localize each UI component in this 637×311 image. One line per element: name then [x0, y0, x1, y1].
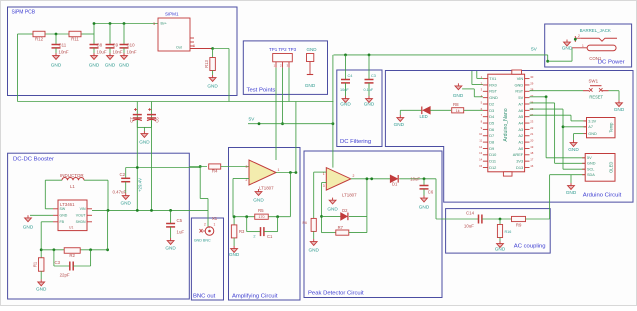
svg-text:DC Power: DC Power: [598, 59, 625, 65]
svg-text:VIN: VIN: [517, 76, 524, 81]
svg-text:GND BNC: GND BNC: [194, 239, 211, 243]
svg-text:R3: R3: [239, 229, 245, 234]
svg-text:R13: R13: [204, 59, 209, 67]
svg-text:22: 22: [530, 126, 534, 130]
svg-text:C7: C7: [129, 117, 134, 123]
svg-text:14: 14: [479, 158, 483, 162]
svg-text:+29.4V: +29.4V: [138, 178, 143, 192]
svg-text:U1: U1: [69, 226, 73, 230]
svg-text:RST: RST: [515, 89, 523, 94]
svg-text:D13: D13: [516, 165, 523, 170]
svg-text:C3: C3: [55, 260, 61, 265]
svg-text:GND: GND: [562, 46, 573, 51]
svg-text:GND: GND: [60, 214, 68, 218]
svg-text:RX0: RX0: [489, 82, 497, 87]
svg-text:C9: C9: [113, 43, 119, 48]
svg-text:11: 11: [479, 139, 482, 143]
svg-text:23: 23: [530, 119, 534, 123]
svg-text:GND: GND: [308, 248, 319, 253]
svg-text:10: 10: [479, 132, 483, 136]
svg-text:10nF: 10nF: [113, 50, 123, 55]
svg-text:X1: X1: [212, 216, 218, 221]
svg-text:A2: A2: [518, 133, 523, 138]
svg-text:GND: GND: [120, 201, 131, 206]
svg-text:R4: R4: [212, 169, 218, 174]
svg-text:GND: GND: [419, 205, 430, 210]
svg-text:Bv+: Bv+: [161, 22, 167, 26]
svg-text:OLED: OLED: [609, 162, 614, 173]
svg-text:10uF: 10uF: [340, 88, 349, 92]
svg-text:C4: C4: [348, 74, 353, 78]
svg-text:GND: GND: [253, 198, 264, 203]
svg-text:D2: D2: [342, 208, 348, 213]
svg-text:SW1: SW1: [589, 78, 599, 83]
svg-text:D3: D3: [489, 108, 494, 113]
svg-text:A7: A7: [518, 101, 523, 106]
svg-text:GND: GND: [105, 63, 116, 68]
svg-text:D10: D10: [489, 152, 497, 157]
svg-text:R1: R1: [33, 261, 38, 267]
svg-text:A6: A6: [518, 108, 523, 113]
svg-text:26: 26: [530, 100, 534, 104]
svg-text:R8: R8: [453, 102, 459, 107]
svg-text:2: 2: [253, 235, 255, 239]
svg-text:R12: R12: [35, 36, 44, 41]
svg-text:20: 20: [530, 139, 534, 143]
svg-text:GND: GND: [23, 225, 34, 230]
svg-text:RST: RST: [489, 89, 497, 94]
svg-text:GND: GND: [588, 132, 597, 136]
svg-text:A7: A7: [588, 125, 593, 129]
svg-text:0.47uF: 0.47uF: [113, 190, 127, 195]
svg-text:GND: GND: [566, 190, 577, 195]
svg-text:5V: 5V: [518, 95, 523, 100]
svg-text:A3: A3: [518, 127, 523, 132]
svg-text:3.3V: 3.3V: [588, 119, 596, 123]
svg-text:0.1uF: 0.1uF: [364, 88, 374, 92]
svg-text:Out: Out: [176, 46, 182, 50]
svg-text:GND: GND: [340, 102, 351, 107]
svg-text:1k: 1k: [456, 109, 460, 113]
svg-text:2: 2: [578, 34, 580, 38]
svg-text:D11: D11: [489, 159, 496, 164]
svg-text:D5: D5: [489, 120, 494, 125]
svg-text:AREF: AREF: [513, 152, 524, 157]
svg-text:TP1 TP2 TP3: TP1 TP2 TP3: [269, 47, 297, 52]
svg-text:C3: C3: [371, 74, 376, 78]
svg-text:AC coupling: AC coupling: [514, 244, 546, 250]
svg-text:LED: LED: [420, 114, 428, 119]
svg-text:DC-DC Booster: DC-DC Booster: [13, 157, 54, 163]
svg-text:C1: C1: [267, 234, 273, 239]
svg-text:GND: GND: [305, 83, 316, 88]
svg-text:GND: GND: [89, 63, 100, 68]
svg-text:D1: D1: [392, 182, 398, 187]
svg-text:5V: 5V: [249, 117, 256, 123]
svg-text:BNC out: BNC out: [193, 294, 216, 300]
svg-text:LT1807: LT1807: [259, 186, 274, 191]
svg-text:Peak Detector Circuit: Peak Detector Circuit: [308, 291, 364, 297]
svg-text:L1: L1: [70, 184, 75, 189]
svg-text:15: 15: [479, 164, 483, 168]
svg-text:C11: C11: [59, 43, 67, 48]
svg-text:SW: SW: [60, 207, 66, 211]
svg-text:R6: R6: [303, 221, 308, 225]
svg-text:A0: A0: [518, 146, 524, 151]
svg-text:D7: D7: [489, 133, 494, 138]
svg-text:CON1: CON1: [589, 56, 602, 61]
svg-text:VOUT: VOUT: [76, 214, 87, 218]
svg-text:R5: R5: [258, 208, 264, 213]
svg-text:Amplifying Circuit: Amplifying Circuit: [232, 294, 278, 300]
svg-text:10uF: 10uF: [410, 177, 420, 182]
svg-text:GND: GND: [119, 63, 130, 68]
svg-text:17: 17: [530, 158, 534, 162]
svg-text:C6: C6: [155, 117, 160, 123]
svg-text:Test Points: Test Points: [247, 88, 276, 94]
svg-text:10uF: 10uF: [97, 50, 107, 55]
svg-text:1: 1: [193, 44, 195, 48]
svg-text:27: 27: [530, 94, 534, 98]
svg-text:A1: A1: [518, 140, 523, 145]
svg-text:C8: C8: [97, 43, 103, 48]
svg-text:GND: GND: [453, 93, 464, 98]
svg-text:RESET: RESET: [589, 94, 603, 99]
svg-text:1: 1: [278, 168, 280, 172]
svg-text:GND: GND: [495, 247, 506, 252]
svg-text:2: 2: [353, 174, 355, 178]
svg-text:GND: GND: [207, 84, 218, 89]
svg-text:19: 19: [530, 145, 534, 149]
svg-text:GND: GND: [515, 82, 524, 87]
svg-text:SHDN: SHDN: [76, 220, 86, 224]
svg-text:C5: C5: [177, 218, 183, 223]
svg-text:5V: 5V: [531, 47, 538, 53]
svg-text:D9: D9: [489, 146, 494, 151]
svg-text:A5: A5: [518, 114, 523, 119]
svg-text:LT3461: LT3461: [60, 202, 75, 207]
svg-text:16: 16: [530, 164, 534, 168]
svg-text:GND: GND: [139, 140, 150, 145]
svg-text:GND: GND: [229, 252, 240, 257]
svg-text:FB: FB: [60, 220, 65, 224]
svg-text:LT1807: LT1807: [342, 192, 357, 197]
svg-text:BARREL_JACK: BARREL_JACK: [580, 28, 611, 33]
svg-text:GND: GND: [587, 162, 596, 166]
svg-text:GND: GND: [394, 122, 405, 127]
svg-text:D6: D6: [489, 127, 494, 132]
svg-text:D8: D8: [489, 140, 494, 145]
svg-text:GND: GND: [165, 246, 176, 251]
svg-text:D2: D2: [489, 101, 494, 106]
svg-text:GND: GND: [568, 147, 579, 152]
svg-text:C10: C10: [127, 43, 136, 48]
svg-text:C14: C14: [466, 210, 475, 215]
svg-text:R2: R2: [69, 253, 75, 258]
svg-text:A4: A4: [518, 120, 524, 125]
svg-text:170: 170: [259, 215, 265, 219]
svg-text:TX1: TX1: [489, 76, 496, 81]
svg-text:3: 3: [323, 184, 325, 188]
svg-text:29: 29: [530, 81, 534, 85]
svg-text:D12: D12: [489, 165, 496, 170]
svg-text:Temp: Temp: [608, 122, 613, 133]
svg-text:1uF: 1uF: [177, 230, 185, 235]
svg-text:VIN: VIN: [80, 207, 86, 211]
svg-text:1: 1: [214, 223, 216, 227]
svg-text:C2: C2: [120, 172, 126, 177]
svg-text:GND: GND: [364, 102, 375, 107]
svg-text:30: 30: [530, 75, 534, 79]
svg-text:GND: GND: [489, 95, 498, 100]
svg-text:Arduino_Nano: Arduino_Nano: [503, 108, 509, 141]
svg-text:DC Filtering: DC Filtering: [340, 139, 371, 145]
svg-text:GND: GND: [51, 63, 62, 68]
svg-text:SCL: SCL: [587, 168, 594, 172]
svg-text:1: 1: [323, 172, 325, 176]
svg-text:GND: GND: [327, 207, 338, 212]
svg-text:10nF: 10nF: [59, 50, 69, 55]
svg-text:R7: R7: [338, 225, 344, 230]
svg-text:GND: GND: [307, 47, 318, 52]
svg-text:2: 2: [204, 223, 206, 227]
svg-text:3: 3: [153, 22, 155, 26]
svg-text:SiPM PCB: SiPM PCB: [12, 10, 36, 16]
svg-text:GND: GND: [614, 107, 625, 112]
svg-text:10nF: 10nF: [127, 50, 137, 55]
svg-text:3V3: 3V3: [516, 159, 523, 164]
svg-text:3: 3: [246, 165, 248, 169]
svg-text:10uF: 10uF: [464, 224, 474, 229]
svg-text:18: 18: [530, 151, 534, 155]
svg-text:R16: R16: [505, 230, 512, 234]
svg-text:SDA: SDA: [587, 173, 595, 177]
svg-text:5V: 5V: [587, 156, 592, 160]
svg-text:GND: GND: [36, 287, 47, 292]
svg-text:22pF: 22pF: [60, 273, 70, 278]
svg-text:D4: D4: [489, 114, 495, 119]
svg-text:Arduino Circuit: Arduino Circuit: [583, 193, 622, 199]
svg-text:R9: R9: [516, 222, 522, 227]
svg-text:13: 13: [479, 151, 483, 155]
svg-text:12: 12: [479, 145, 483, 149]
svg-text:1: 1: [582, 44, 584, 48]
svg-text:C6: C6: [428, 190, 434, 195]
svg-text:SiPM1: SiPM1: [165, 12, 179, 17]
svg-text:21: 21: [530, 132, 534, 136]
svg-text:R11: R11: [71, 36, 79, 41]
